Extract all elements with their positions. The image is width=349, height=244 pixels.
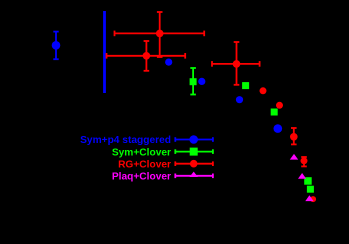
red point R5 [276,102,283,109]
red point R8 [310,196,316,202]
magenta point M2 [298,173,306,179]
blue point B5 [274,124,283,133]
svg-text:Sym+Clover: Sym+Clover [112,147,171,158]
green point G5 [307,186,314,193]
red point B [143,52,151,60]
magenta point M3 [305,195,313,201]
svg-text:RG+Clover: RG+Clover [118,159,171,170]
red point R6 errorbars [291,128,297,144]
green point G4 [304,177,312,185]
red point R7 errorbars [301,157,307,166]
red point R6 [290,133,298,141]
blue point B1 [52,41,61,50]
red point R7 [301,157,308,164]
blue point B1 errorbars [53,32,58,60]
green point G1 errorbars [190,68,196,95]
magenta point M1 [290,154,298,160]
blue point B3 [198,78,205,85]
red point A errorbars [115,12,205,57]
red point C errorbars [212,42,260,85]
red point B errorbars [107,41,186,71]
svg-text:Plaq+Clover: Plaq+Clover [112,172,171,183]
green point G3 [271,109,278,116]
red point R4 [260,87,267,94]
red point C [233,60,241,68]
blue vertical line [103,11,106,93]
green point G1 [190,78,197,85]
red point A [156,30,164,38]
green point G2 [242,82,249,89]
blue point B4 [236,96,243,103]
blue point B2 [165,59,172,66]
svg-text:Sym+p4 staggered: Sym+p4 staggered [80,135,171,146]
